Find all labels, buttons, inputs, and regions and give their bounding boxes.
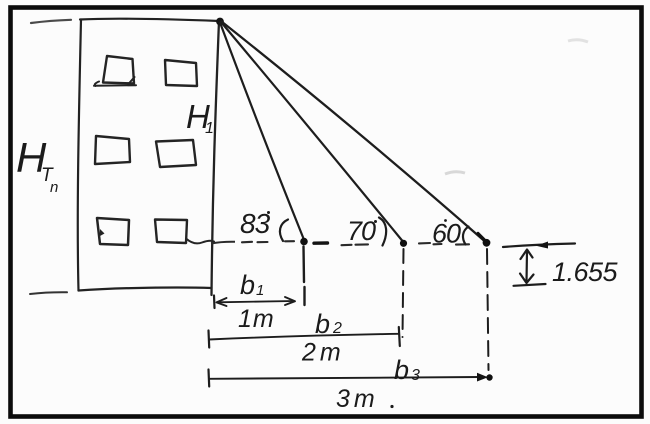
b3 dimension line: [209, 377, 481, 379]
svg-text:b: b: [240, 270, 255, 300]
svg-text:1: 1: [256, 282, 264, 299]
svg-text:b: b: [315, 309, 330, 339]
sight line 70deg: [221, 22, 403, 241]
label H_1: [186, 98, 214, 137]
svg-text:3: 3: [411, 367, 420, 384]
sight line 83deg: [220, 23, 304, 239]
ground dot 1: [300, 238, 308, 246]
angle arc 70: [379, 218, 386, 246]
svg-text:2m: 2m: [301, 339, 345, 367]
svg-text:n: n: [50, 179, 58, 196]
b1 dimension arrow: [213, 296, 216, 309]
building: top edge: [80, 19, 219, 21]
ground dot 2: [400, 240, 407, 247]
arrowhead on reference line: [536, 242, 548, 249]
dropper line 2 dashed: [403, 249, 404, 337]
vertical measure arrow 1.655: [525, 251, 528, 282]
dropper line 1: [304, 247, 305, 306]
angle arc 60: [463, 227, 469, 245]
window row1 left: [103, 56, 134, 84]
svg-text:1: 1: [205, 120, 214, 137]
svg-text:b: b: [394, 355, 409, 385]
window row3 left: [97, 218, 129, 245]
window row3 right: [155, 220, 187, 244]
b2 dimension line: [209, 334, 399, 340]
label H_Tn: [16, 134, 58, 196]
window row2 left: [95, 136, 130, 164]
building: right edge: [212, 21, 220, 295]
svg-text:1.655: 1.655: [552, 257, 619, 287]
svg-text:70: 70: [347, 216, 376, 246]
dashed ground line: [211, 242, 235, 244]
window row1 right: [165, 60, 197, 86]
dropper line 3 dashed: [487, 249, 489, 370]
building: top-left tick line: [31, 20, 71, 23]
sight line 60deg: [222, 22, 486, 242]
window row2 right: [156, 140, 196, 167]
building: bottom edge: [79, 288, 212, 291]
building: bottom-left tick line: [30, 292, 67, 294]
svg-text:1m: 1m: [238, 305, 275, 333]
faint scan smudges: [445, 172, 465, 174]
squiggle connecting window to right edge: [186, 239, 214, 244]
angle arc 83: [280, 220, 288, 242]
svg-text:60: 60: [432, 219, 461, 249]
apex dot: [216, 18, 224, 26]
svg-text:3m: 3m: [336, 385, 379, 413]
right reference line: [503, 244, 575, 248]
ground dot 3: [483, 239, 491, 247]
svg-text:83: 83: [240, 208, 271, 239]
building: left edge: [78, 20, 81, 291]
svg-text:2: 2: [332, 320, 342, 337]
